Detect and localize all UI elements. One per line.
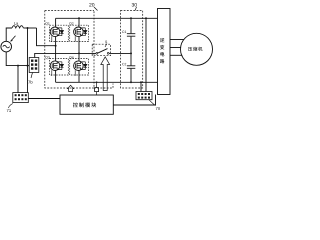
MOSFET Q3 xyxy=(50,46,63,83)
node dot bottom rail square2 xyxy=(96,81,98,83)
label C1 xyxy=(122,31,126,33)
dashed box relay xyxy=(92,44,110,56)
label inverter vertical text xyxy=(160,38,164,63)
stub wire square2 xyxy=(96,82,98,95)
MOSFET Q2 xyxy=(74,18,87,53)
label Q4 xyxy=(69,56,73,59)
control signal arrow large to relay xyxy=(101,57,110,91)
label 7b leader xyxy=(31,73,33,79)
wire CN1 to control module xyxy=(28,98,60,100)
capacitor C2 xyxy=(127,53,135,82)
relay switch S xyxy=(96,49,131,55)
MOSFET Q4 xyxy=(74,53,87,82)
wire tap down to connector CN1 xyxy=(17,66,19,93)
wire phase U xyxy=(170,39,184,41)
wire phase V xyxy=(170,47,181,49)
label 71 xyxy=(7,109,11,112)
leader 20 xyxy=(94,7,98,11)
node dot mid rail leg2 xyxy=(78,52,80,54)
top rail wire xyxy=(56,17,158,19)
wire AC bottom line2 xyxy=(6,52,29,66)
label C2 xyxy=(122,63,126,65)
label Q1 xyxy=(45,22,49,25)
dashed box 30 capacitor unit xyxy=(121,11,143,89)
node dot bottom rail cap xyxy=(130,81,132,83)
node dot top rail leg2 xyxy=(78,17,80,19)
node dot bottom rail right xyxy=(140,81,142,83)
dashed box around Q2 xyxy=(70,25,89,41)
dashed box around Q4 xyxy=(70,59,89,75)
gate stub Q2 xyxy=(74,36,76,41)
label Q3 xyxy=(45,56,49,59)
dashed box 20 bridge unit xyxy=(45,11,113,89)
gate stub Q3 xyxy=(51,70,53,76)
wire right riser to connector CN3 xyxy=(145,18,147,91)
node A bridge left leg xyxy=(55,45,57,47)
wire riser to bottom connector xyxy=(27,28,29,93)
compressor motor M xyxy=(181,33,213,65)
wire AC line1 drop to bridge xyxy=(37,28,57,46)
label L xyxy=(14,22,18,25)
node dot line2 tap xyxy=(17,65,19,67)
connector CN2 (6-pin block) xyxy=(29,58,39,73)
gate stub Q4 xyxy=(74,70,76,76)
dashed box around Q1 xyxy=(50,25,69,41)
inductor L xyxy=(12,26,23,28)
dashed box around Q3 xyxy=(50,59,69,75)
AC source V1 xyxy=(1,41,12,52)
label control module xyxy=(73,102,96,107)
gate stub Q1 xyxy=(51,36,53,41)
wire bottom rail to CN3 xyxy=(140,82,142,91)
arrow leader to AC source xyxy=(10,36,15,42)
label S xyxy=(105,41,107,43)
wire inductor to corner xyxy=(23,27,36,29)
connector CN1 (8-pin block) xyxy=(13,93,28,103)
label 20 xyxy=(89,3,94,7)
label S leader xyxy=(105,44,107,48)
wire control module to inverter box xyxy=(113,95,155,106)
connector CN3 (8-pin block) xyxy=(136,92,152,100)
label 7b xyxy=(28,80,32,83)
inverter box xyxy=(158,9,171,95)
control signal arrow small xyxy=(68,85,74,91)
node dot top rail right xyxy=(145,17,147,19)
wire CN2 top riser to mid rail xyxy=(35,53,96,57)
capacitor C1 xyxy=(127,18,135,53)
node dot top rail cap xyxy=(130,17,132,19)
wire AC top to inductor xyxy=(6,28,12,41)
control module box xyxy=(60,95,113,114)
control terminal square 2 xyxy=(95,88,99,92)
label Q2 xyxy=(69,22,73,25)
leader 30 xyxy=(135,7,137,11)
node dot mid rail cap xyxy=(130,52,132,54)
label 70 leader xyxy=(149,100,156,106)
wire phase W xyxy=(170,54,182,56)
bottom rail wire xyxy=(56,81,158,83)
label 30 xyxy=(132,3,137,7)
label 70 xyxy=(156,107,160,110)
node dot on AC line2 xyxy=(27,65,29,67)
node dot on AC line1 xyxy=(27,27,29,29)
MOSFET Q1 xyxy=(50,18,63,45)
label 71 leader xyxy=(9,104,13,109)
